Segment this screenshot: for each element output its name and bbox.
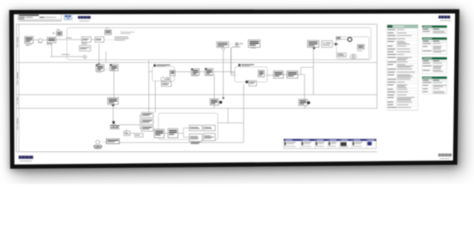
- wire C2 bottom down to C4: [154, 81, 156, 112]
- wire T3 down to divider: [304, 106, 306, 109]
- task box C1a: [82, 37, 91, 42]
- blue logo box: [64, 14, 72, 20]
- connector elbow right of C4: [227, 108, 229, 123]
- task box L2e with icon: [274, 71, 284, 78]
- arrowhead under F3: [312, 47, 315, 49]
- dashed link from annotation: [58, 36, 60, 39]
- tagline under top-left logo: [79, 20, 89, 23]
- task box L2d with icon: [205, 68, 213, 75]
- wire L2d to C3: [213, 71, 236, 73]
- caption under box B: [47, 42, 52, 45]
- task box L2b with icon: [110, 64, 118, 71]
- wire E1-B: [42, 39, 47, 41]
- wire into T2 from lane 2: [213, 75, 215, 99]
- big table: rows: [387, 28, 418, 30]
- container C3: [235, 67, 268, 82]
- C3 interior small box with glyph: [246, 81, 257, 86]
- elbow right to F3 line: [301, 66, 314, 68]
- task box F1: [217, 42, 229, 48]
- lane divider 1: [17, 62, 378, 64]
- grid box G1a: [189, 125, 202, 131]
- lane label 4: [16, 118, 19, 125]
- container C4: [159, 113, 218, 139]
- end event circle (thick): [348, 38, 352, 42]
- event circle E2: [235, 42, 239, 46]
- task box L2a with icon: [96, 64, 104, 71]
- document stack icon F2: [248, 40, 260, 47]
- grid box G2a: [189, 134, 202, 142]
- hands glyph under circle: [94, 145, 102, 149]
- dark arrowhead below T1: [111, 105, 114, 107]
- page drop shadow: [14, 16, 464, 176]
- wire B-C1: [56, 39, 67, 41]
- task box T3 with icon and dot: [299, 99, 310, 105]
- caption under F2: [251, 47, 256, 50]
- gateway on C3 right edge: [266, 74, 269, 77]
- stack bracket vertical: [139, 115, 141, 129]
- caption under E1: [38, 41, 43, 44]
- small table R4: [422, 77, 447, 94]
- gateway on C3 left edge: [233, 74, 236, 77]
- task box B: [47, 37, 56, 42]
- legend cell separators: [300, 139, 302, 149]
- caption under box A: [26, 43, 32, 46]
- box BB (dark text box): [106, 139, 119, 144]
- lane divider 3: [17, 107, 378, 109]
- wire GB right to stack bracket: [120, 124, 141, 126]
- arrowhead at wire end: [222, 97, 225, 99]
- wire F1 gateway down through lane 2: [222, 51, 224, 98]
- data store oval: [350, 54, 357, 59]
- faint text annotation upper: [121, 31, 135, 34]
- document icon with label (lane1 top band): [105, 30, 111, 35]
- short vertical wire right of C1c: [105, 52, 107, 63]
- task box PRb: [168, 129, 178, 138]
- small box SB: [124, 131, 130, 136]
- lane label 3: [16, 97, 19, 101]
- lane label 1: [16, 37, 19, 43]
- small table R3: [422, 57, 447, 73]
- wire L2e-L2f: [283, 74, 287, 76]
- long wire G bottom to lane4 stack: [148, 60, 150, 112]
- wire A-E1: [34, 39, 39, 41]
- legend navy header bar: [284, 139, 376, 141]
- black frame: [9, 9, 459, 169]
- Transco logo top-left: [78, 16, 91, 19]
- legend navy logo block: [367, 142, 371, 146]
- caption under C5 glyph: [357, 50, 362, 53]
- text annotation block: [115, 36, 129, 39]
- wire F4 to C5: [332, 43, 336, 45]
- stack box S2: [142, 119, 154, 124]
- small gateway under F1: [222, 47, 225, 50]
- caption under G2a: [191, 141, 200, 144]
- long wire BB to right edge: [119, 142, 243, 144]
- task box L2f with icon: [287, 71, 298, 78]
- legend strip box: [284, 139, 376, 149]
- big table: green title bar: [387, 25, 418, 28]
- caption under E2: [232, 46, 240, 49]
- row box RB1: [135, 133, 143, 137]
- legend dark glyph cell: [341, 142, 347, 146]
- wire C3 to L2e: [269, 74, 275, 76]
- wire L2a-L2b: [104, 69, 110, 71]
- glyph icon in C5: [358, 45, 365, 49]
- fine print under title block: [19, 20, 62, 23]
- annotation glyph above lane 1: [53, 31, 62, 35]
- giant group container G (lane 1 subprocess): [67, 28, 371, 60]
- C2 header label: [154, 64, 171, 66]
- title block row 3: [19, 18, 24, 21]
- label on wire to D1: [62, 53, 70, 56]
- stack box S3: [142, 126, 154, 131]
- gateway diamond D1: [83, 55, 87, 59]
- caption under L2d: [205, 74, 213, 77]
- label on wire E2-F2: [240, 42, 243, 45]
- small box G1: [336, 37, 340, 40]
- wire F3 down through lane 2: [312, 47, 314, 94]
- big table: outer: [387, 25, 418, 111]
- split bracket: [183, 128, 185, 137]
- grid box G1b: [204, 125, 216, 131]
- box below C2: [161, 82, 171, 87]
- wire C3 bottom down right edge: [243, 85, 245, 143]
- wire L2f right: [298, 74, 301, 76]
- legend items: [284, 142, 286, 145]
- grid box G2b: [204, 133, 216, 140]
- small table R1: [422, 26, 447, 34]
- container C2: [152, 67, 174, 81]
- task box T1: [108, 98, 119, 105]
- flowchart pool border: [17, 23, 378, 25]
- title text: Order to Cash Methodology: [19, 15, 39, 16]
- wire PRb to split: [178, 132, 184, 134]
- arrowhead into L2a: [98, 64, 100, 66]
- task box F3 with glyph: [308, 40, 319, 47]
- title block: [18, 14, 62, 19]
- wire down to lane 3 box T3: [304, 75, 306, 100]
- wire C1b down to lane 2: [98, 44, 100, 66]
- wire C2 to L2c: [174, 71, 191, 73]
- task box PRa with glyph: [154, 129, 164, 137]
- event circle E1: [39, 39, 43, 43]
- wire to gateway D1: [50, 56, 82, 58]
- task box T2 with icon and dot: [210, 99, 222, 105]
- C2 interior event circle: [161, 77, 165, 81]
- wire T2 down to divider: [213, 105, 215, 108]
- wire T1 down to lane 4: [112, 107, 114, 120]
- caption under L2a: [97, 71, 102, 74]
- E2 inner dot: [236, 44, 237, 45]
- title block row 2 fields: [19, 16, 25, 19]
- dashed wire to annotation: [104, 39, 114, 41]
- label above document icon: [105, 27, 109, 30]
- wire SB right: [130, 132, 135, 134]
- arrowhead into C5: [335, 43, 338, 46]
- glyph box GB (ornate icon): [110, 121, 120, 129]
- task box G2: [338, 53, 347, 57]
- label above annotation glyph: [57, 28, 60, 31]
- lane divider 2: [17, 94, 378, 96]
- wire L2c-L2d: [199, 71, 205, 73]
- white page: [14, 14, 455, 165]
- wire L2b down to lane 3: [113, 71, 115, 98]
- task box L2c with icon: [191, 69, 199, 76]
- event circle bottom-left: [96, 140, 100, 144]
- task box C1b: [95, 37, 104, 42]
- stack box S1: [142, 112, 154, 117]
- task box C1c: [80, 46, 91, 52]
- wire down from B: [51, 43, 53, 57]
- wire into C1a: [68, 39, 82, 41]
- lane label 2: [16, 72, 19, 79]
- stub into C2: [149, 71, 153, 73]
- C2 interior small box: [166, 77, 170, 81]
- Transco logo top-right: [439, 16, 451, 19]
- wire PRa-PRb: [164, 132, 168, 134]
- dashed wire F1 to E2: [229, 43, 234, 45]
- wire C1a-C1b: [91, 39, 95, 41]
- task box F4 with x marks: [322, 41, 333, 48]
- dashed wire circle to BB: [100, 141, 107, 143]
- task box A (start task): [25, 37, 34, 44]
- Transco logo bottom-right (gray): [438, 154, 451, 157]
- elbow up from L2f: [300, 67, 302, 74]
- wire from lane1 down to C3 left: [230, 47, 232, 73]
- lane label column line: [18, 24, 20, 152]
- wire down to C3 left: [230, 47, 232, 75]
- caption under L2c: [192, 75, 199, 78]
- C3 interior: task with icon: [258, 70, 264, 77]
- C2 interior: task with icon: [170, 70, 175, 75]
- caption under C1a: [82, 42, 87, 45]
- Transco logo bottom-left: [19, 156, 33, 159]
- C3 header label: [238, 64, 254, 66]
- wire G1 to end event: [340, 38, 347, 40]
- wire E2 to F2: [239, 43, 244, 45]
- label on wire B-C1: [66, 37, 72, 40]
- container C5: [337, 37, 370, 59]
- small table R2: [422, 38, 447, 55]
